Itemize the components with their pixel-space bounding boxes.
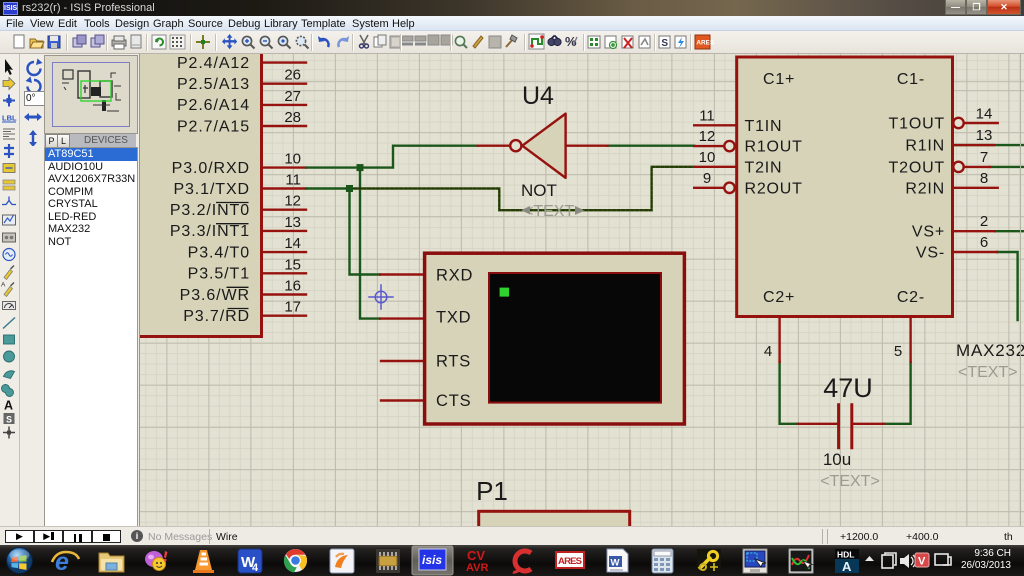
svg-text:isis: isis	[422, 553, 442, 567]
svg-text:A: A	[842, 559, 852, 574]
svg-text:ARES: ARES	[558, 556, 582, 567]
svg-text:LBL: LBL	[2, 114, 17, 123]
svg-text:CV: CV	[467, 548, 485, 563]
svg-text:A: A	[1, 282, 6, 289]
svg-text:A: A	[4, 399, 13, 413]
svg-text:AVR: AVR	[466, 562, 488, 574]
svg-text:HDL: HDL	[837, 550, 854, 560]
svg-text:4: 4	[252, 562, 259, 574]
svg-text:V: V	[918, 556, 926, 568]
svg-text:ARES: ARES	[696, 40, 714, 47]
svg-text:W: W	[611, 558, 620, 569]
svg-text:S: S	[661, 38, 668, 49]
svg-text:S: S	[6, 414, 12, 424]
